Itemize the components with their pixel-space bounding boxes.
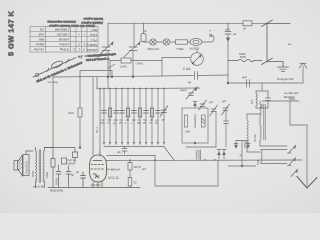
- svg-text:1M W: 1M W: [134, 165, 142, 169]
- vertical from heater line: [109, 61, 111, 76]
- feed to wavy: [228, 60, 238, 62]
- svg-text:500: 500: [250, 99, 254, 104]
- transformer bottom lead right: [43, 181, 45, 188]
- svg-text:3xW: 3xW: [68, 111, 74, 115]
- coil bank A left winding: [247, 118, 248, 144]
- band switch contact b: [288, 158, 296, 166]
- meter circle: [191, 53, 204, 66]
- svg-text:~240V: ~240V: [135, 62, 143, 66]
- series cap on antenna line: [247, 80, 250, 88]
- tone switch center wire: [241, 141, 243, 167]
- resistor on v140: [138, 108, 141, 117]
- osc vertical b lower: [225, 124, 227, 148]
- grid left cap: [81, 172, 86, 188]
- wire below small box: [74, 158, 76, 163]
- chassis line under comb: [104, 146, 164, 148]
- switch top out wire: [267, 23, 290, 25]
- bottom bus left: [48, 187, 140, 189]
- rf coil mid lead: [259, 118, 261, 125]
- heater line from box: [110, 60, 121, 62]
- table cell text row1: [33, 28, 97, 53]
- rf lower coil bottom wire: [261, 162, 287, 164]
- junction dot bus1 b: [132, 76, 134, 78]
- tank down wire: [261, 104, 263, 108]
- output transformer primary: [36, 151, 37, 182]
- junction y147: [79, 147, 81, 149]
- anode top lead: [99, 152, 101, 156]
- svg-text:80m: 80m: [91, 28, 97, 32]
- rf top link wire: [262, 100, 299, 102]
- svg-text:MW: MW: [39, 38, 44, 42]
- svg-text:μF: μF: [243, 27, 246, 31]
- svg-text:500: 500: [101, 122, 106, 125]
- barretter oval: [190, 39, 202, 46]
- tone switch T bars: [234, 143, 250, 145]
- svg-text:0.5890-840: 0.5890-840: [54, 28, 69, 32]
- switch bar vertical: [266, 23, 268, 62]
- antenna symbol: [299, 63, 307, 83]
- svg-text:50000: 50000: [55, 177, 59, 185]
- fuse Si drop: [143, 23, 145, 34]
- capacitor on v104: [102, 111, 107, 114]
- comb vertical v11: [157, 89, 159, 145]
- speaker cone: [18, 155, 23, 176]
- svg-text:μF₂: μF₂: [117, 150, 121, 154]
- comb vertical v5: [121, 89, 123, 145]
- barretter link wavy: [238, 59, 254, 62]
- svg-text:μF: μF: [233, 32, 237, 36]
- rf coil upper section: [260, 104, 261, 118]
- variable cap C1 plates: [97, 42, 113, 57]
- svg-text:5 GW 147 K: 5 GW 147 K: [7, 11, 16, 56]
- wire between resistors: [129, 170, 131, 178]
- svg-text:5295mg: 5295mg: [86, 43, 97, 47]
- speaker wires: [26, 151, 33, 155]
- svg-text:μμF: μμF: [242, 75, 247, 79]
- tube VCL11 envelope: [90, 155, 107, 182]
- suppressor box top right: [243, 21, 252, 26]
- mains drop left: [107, 23, 109, 46]
- comb vertical v3: [109, 89, 111, 145]
- decoupling cap on chassis line: [122, 147, 127, 155]
- svg-text:-575/kg: -575/kg: [59, 48, 69, 52]
- big chassis arrow head: [297, 177, 317, 189]
- coil A bottom lead: [247, 147, 260, 152]
- resistor on v128: [126, 108, 129, 117]
- svg-text:500: 500: [137, 122, 142, 125]
- mains top wire: [108, 22, 243, 24]
- tube anode bar: [93, 160, 102, 162]
- dropper resistor body: [176, 40, 188, 44]
- switch pair mid: [217, 150, 226, 160]
- svg-text:6000/5000: 6000/5000: [50, 189, 64, 193]
- svg-text:405Ω: 405Ω: [31, 171, 35, 177]
- capacitor on v134: [132, 111, 137, 114]
- capacitor on v158: [156, 111, 161, 114]
- osc top contact: [193, 102, 197, 109]
- svg-text:n=0,4/μF: n=0,4/μF: [90, 183, 101, 187]
- tube grid2 dashes: [91, 168, 104, 170]
- comb vertical v6: [127, 89, 129, 145]
- resistor on left drop: [51, 159, 55, 168]
- svg-text:+: +: [78, 33, 80, 37]
- electrolytic cap top plates: [225, 29, 231, 34]
- svg-text:LW: LW: [40, 28, 44, 32]
- wire resistor to barretter: [188, 41, 191, 43]
- tube pin leads: [93, 182, 102, 188]
- capacitor on v146: [144, 111, 149, 114]
- earth drop: [282, 62, 284, 68]
- junction feed/antenna: [227, 82, 229, 84]
- bias resistor lower: [128, 178, 132, 187]
- switch top tick: [262, 20, 273, 27]
- rf coil upper lead: [259, 101, 261, 104]
- svg-text:(250V): (250V): [68, 162, 76, 166]
- svg-text:su,erllg m(d): su,erllg m(d): [284, 91, 299, 95]
- osc bottom dot: [194, 142, 196, 144]
- svg-text:0.585-297: 0.585-297: [56, 33, 69, 37]
- osc coil: [195, 115, 196, 128]
- LC tank cap: [266, 91, 271, 108]
- switch bottom out wire: [267, 61, 283, 63]
- svg-text:VCL 11: VCL 11: [108, 176, 119, 180]
- svg-text:5mA(μμF) 2kV: 5mA(μμF) 2kV: [277, 77, 294, 81]
- output transformer secondary: [43, 151, 44, 182]
- waveband lever pointer: [33, 58, 76, 78]
- svg-text:Si: Si: [144, 29, 147, 33]
- speaker magnet: [14, 161, 18, 171]
- svg-text:140m: 140m: [89, 33, 97, 37]
- comb vertical v9: [145, 89, 147, 145]
- svg-text:50Ω: 50Ω: [257, 160, 260, 165]
- junction dot bus1 a: [107, 76, 109, 78]
- wire mains to electrolytic: [227, 23, 229, 32]
- svg-text:0,6/250V: 0,6/250V: [189, 47, 200, 51]
- padder trimmer a: [199, 100, 207, 110]
- big chassis arrow stem: [306, 125, 308, 186]
- osc cap c plates: [224, 121, 229, 124]
- transformer top leads: [35, 148, 37, 152]
- output transformer core: [39, 150, 40, 183]
- variable cap C2 plates: [124, 42, 140, 57]
- comb vertical v7: [133, 89, 135, 145]
- wire below C1: [107, 51, 109, 78]
- transformer top lead right: [44, 148, 53, 152]
- osc resistor: [184, 115, 187, 127]
- rf coil core bars: [264, 104, 265, 140]
- svg-text:AV 500: AV 500: [254, 133, 257, 142]
- meter drop to bus: [161, 61, 163, 76]
- svg-text:500Ω: 500Ω: [289, 98, 295, 101]
- fuse Si body: [141, 34, 146, 42]
- svg-text:7700k: 7700k: [176, 47, 184, 51]
- osc vertical a: [215, 112, 217, 148]
- wavy to switch wire: [254, 60, 262, 62]
- tone switch staple: [236, 141, 248, 149]
- svg-text:V500-101: V500-101: [147, 47, 160, 51]
- switch bottom tick: [262, 58, 273, 65]
- trimmer cap on v164: [160, 106, 168, 117]
- mains wire to switch box: [252, 22, 267, 24]
- svg-text:2x0,1μ: 2x0,1μ: [68, 158, 76, 162]
- coil A top lead: [247, 114, 260, 118]
- bus1 right segment: [198, 74, 229, 77]
- long vertical feed wire: [227, 34, 229, 83]
- bus1 left drop: [52, 77, 54, 147]
- table frame: [30, 27, 98, 53]
- svg-text:+ r': + r': [78, 55, 83, 59]
- junction arrow on feed: [226, 38, 229, 41]
- svg-text:μF: μF: [71, 173, 74, 177]
- wire below C2: [132, 51, 134, 78]
- padder trimmer c: [222, 104, 230, 115]
- comb vertical v12: [163, 89, 165, 145]
- antenna top line: [228, 82, 303, 84]
- tube right side wire: [106, 159, 302, 162]
- tube cathode: [93, 174, 99, 176]
- svg-text:μμ: μμ: [188, 80, 192, 84]
- tone bottom wire: [228, 165, 256, 167]
- svg-text:Σ AA: Σ AA: [183, 67, 191, 71]
- comb vertical v8: [139, 89, 141, 145]
- svg-text:P=600mA: P=600mA: [107, 168, 120, 172]
- junction dots bus2: [99, 88, 165, 90]
- series resistor box 214: [121, 58, 131, 63]
- svg-text:ΔμμF: ΔμμF: [180, 88, 187, 92]
- svg-text:m2/4cm: m2/4cm: [59, 43, 70, 47]
- padder trimmer b: [210, 105, 218, 116]
- resistor on v152: [150, 108, 153, 117]
- dial lamp 1: [150, 39, 156, 45]
- bus1 series cap plates: [195, 72, 198, 80]
- svg-text:KrW: KrW: [38, 33, 44, 37]
- svg-text:5000: 5000: [240, 55, 246, 59]
- heater line to meter: [131, 58, 190, 61]
- left drop wire: [52, 148, 54, 159]
- cathode resistor 1M: [128, 163, 132, 171]
- drop from y147 at x75 to components: [73, 152, 78, 158]
- chassis line y147 left: [44, 148, 75, 153]
- svg-text:μμF: μμF: [222, 100, 227, 103]
- junction dot bus1 c: [111, 76, 113, 78]
- osc vertical b: [225, 111, 227, 122]
- svg-text:Abgleich u.grau.s: Abgleich u.grau.s: [81, 21, 103, 25]
- coil below chassis: [196, 150, 201, 160]
- capacitor on v122: [120, 111, 125, 114]
- svg-text:n2m/3w: n2m/3w: [33, 48, 44, 52]
- rf coil mid bottom wire: [260, 140, 287, 146]
- osc box outline: [182, 108, 208, 143]
- tube grid dashes: [91, 164, 104, 166]
- junction dots y160: [129, 159, 216, 161]
- tone switch arrow right: [247, 145, 250, 148]
- svg-text:sek 0,4Ω: sek 0,4Ω: [33, 185, 44, 189]
- rf lower coil top wire: [261, 149, 287, 152]
- wire fuse to lamps: [144, 41, 150, 44]
- svg-text:77m: 77m: [91, 38, 97, 42]
- tone switch center dot: [241, 165, 243, 167]
- bus1 left segment: [53, 76, 194, 78]
- svg-text:Feld 805Ω: Feld 805Ω: [25, 161, 29, 174]
- svg-text:10kΩ: 10kΩ: [45, 172, 49, 178]
- LC tank coil: [256, 91, 257, 108]
- svg-text:+: +: [209, 29, 211, 33]
- svg-text:50000: 50000: [244, 140, 247, 148]
- wire through 1M: [129, 160, 131, 163]
- resistor on v110: [108, 108, 111, 117]
- comb vertical v10: [151, 89, 153, 145]
- svg-text:es: es: [288, 42, 292, 46]
- svg-text:Antennen-anpassung: Antennen-anpassung: [47, 20, 76, 24]
- lever tick: [108, 64, 115, 69]
- svg-text:μμF: μμF: [209, 101, 214, 104]
- dial lamp 2: [163, 39, 169, 45]
- svg-text:φ: φ: [240, 153, 242, 157]
- svg-text:Bereich u.gau.s: Bereich u.gau.s: [83, 17, 103, 21]
- lower return wire: [155, 160, 218, 186]
- svg-text:20-4: 20-4: [95, 127, 99, 133]
- svg-text:μF: μF: [76, 170, 79, 174]
- rf coil mid section: [260, 125, 261, 140]
- cap pair a: [56, 165, 61, 188]
- svg-text:+: +: [83, 33, 85, 37]
- tube heater: [95, 176, 99, 178]
- transformer bottom leads: [35, 181, 37, 188]
- osc resistor2: [201, 115, 205, 127]
- speaker cone hatch: [19, 159, 23, 170]
- rf lower coil section: [261, 150, 262, 162]
- band switch contact c: [291, 170, 298, 177]
- left drop wire lower: [52, 167, 54, 188]
- anode wire x100: [99, 89, 101, 153]
- bus2 riser: [96, 77, 98, 89]
- LC tank drop: [261, 83, 263, 91]
- wire x107 bus to bus: [107, 77, 109, 89]
- tone switch arrow left: [235, 145, 238, 148]
- wire lamp2 to resistor: [170, 41, 176, 43]
- wire between lamps: [156, 41, 163, 43]
- comb vertical v2: [103, 89, 105, 145]
- component row labels: [101, 119, 165, 125]
- anode resistor box: [78, 108, 82, 117]
- svg-text:292w51: 292w51: [86, 48, 97, 52]
- cap pair b: [66, 166, 71, 188]
- comb vertical v4: [115, 89, 117, 145]
- LC tank bottom bar: [256, 107, 268, 109]
- svg-text:~4V: ~4V: [141, 167, 146, 171]
- svg-text:1430-98: 1430-98: [58, 38, 69, 42]
- staple link above bus1: [80, 71, 112, 78]
- hook contact circle: [210, 34, 212, 36]
- earth symbol: [278, 67, 289, 71]
- diagonal chassis link: [164, 147, 174, 161]
- mains drop mid: [133, 23, 135, 46]
- anode supply wire: [79, 77, 81, 108]
- chassis arrows under comb: [103, 142, 165, 144]
- rf vertical link2: [290, 101, 307, 125]
- capacitor on v116: [114, 111, 119, 114]
- meter top stub: [196, 50, 198, 53]
- wire resistor to transformer: [79, 117, 81, 148]
- bus2 line: [97, 87, 200, 90]
- wire 1M down: [129, 186, 131, 188]
- osc chassis line: [186, 146, 216, 148]
- wire barretter up hook: [202, 36, 214, 43]
- small box component: [62, 158, 67, 164]
- screen wire: [92, 77, 94, 155]
- band switch contact a: [288, 146, 296, 154]
- svg-text:214Ω: 214Ω: [120, 65, 127, 69]
- LC tank top bar: [256, 90, 268, 92]
- AVC arrow symbol: [186, 87, 197, 99]
- speaker field coil box: [23, 155, 29, 176]
- svg-text:100k: 100k: [185, 131, 191, 134]
- svg-text:Batery: Batery: [35, 43, 44, 47]
- tube upper output wire: [107, 155, 156, 160]
